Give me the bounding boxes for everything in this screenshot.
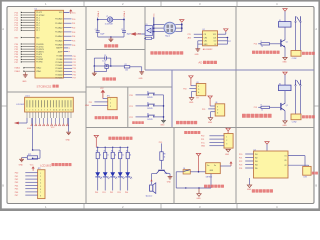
resistor R6 LED limiter: [119, 147, 124, 159]
svg-text:IN3: IN3: [255, 161, 258, 163]
partition line between humidity and key blocks: [127, 87, 129, 128]
svg-text:XTAL2: XTAL2: [123, 10, 126, 17]
svg-text:P20: P20: [239, 154, 242, 156]
label key block caption: [132, 121, 144, 124]
svg-text:P2.0/A8: P2.0/A8: [56, 55, 62, 58]
connector CON4 motor: [303, 166, 311, 178]
svg-text:Y1: Y1: [106, 16, 108, 18]
svg-text:4148: 4148: [27, 128, 31, 130]
svg-text:P03: P03: [117, 192, 120, 194]
svg-text:SW-PB: SW-PB: [147, 108, 152, 110]
label ADC0832 part: [203, 48, 213, 51]
power pin arrow under LCD pin 13: [66, 118, 68, 126]
ground symbol ADC: [195, 49, 201, 56]
svg-text:O1: O1: [284, 155, 286, 157]
wire LCD pin 11 stub: [55, 112, 57, 118]
ground symbol module1: [189, 98, 194, 104]
svg-text:LCD1602: LCD1602: [40, 163, 52, 167]
svg-text:CON2: CON2: [292, 58, 297, 60]
svg-text:A: A: [2, 27, 4, 31]
svg-text:GND: GND: [282, 62, 287, 64]
wire MCU pin P1.0: [15, 12, 35, 15]
power symbol VCC relay 2: [283, 72, 287, 85]
svg-text:P01: P01: [72, 23, 75, 25]
wire LCD pin 12 stub: [58, 112, 60, 118]
svg-text:P0.2/AD2: P0.2/AD2: [55, 26, 62, 29]
svg-text:GND: GND: [19, 165, 24, 167]
svg-text:1k: 1k: [164, 157, 166, 159]
power symbol VCC for LCD backlight: [30, 165, 35, 171]
wire download header pin 4: [201, 146, 224, 148]
capacitor C2: [121, 29, 131, 35]
partition line vertical right of crystal block: [144, 7, 146, 71]
wire JP2 pin 1: [15, 173, 38, 175]
svg-text:K1: K1: [279, 20, 281, 22]
switch S4 power: [183, 168, 190, 174]
svg-text:16: 16: [71, 110, 73, 112]
svg-text:P0.0/AD0: P0.0/AD0: [55, 18, 62, 21]
svg-text:15: 15: [68, 110, 70, 112]
svg-text:13: 13: [62, 110, 64, 112]
wire module1 out pin: [183, 89, 196, 91]
svg-text:P01: P01: [15, 176, 18, 178]
svg-text:P37: P37: [15, 62, 18, 64]
wire LCD pin 5 stub: [38, 112, 40, 118]
label crystal block caption: [104, 44, 118, 47]
wire ADC CH1 pin: [198, 40, 203, 42]
svg-text:P0.1/AD1: P0.1/AD1: [55, 22, 62, 25]
svg-text:P31: P31: [201, 139, 204, 141]
svg-text:P05: P05: [15, 189, 18, 191]
svg-text:P35: P35: [202, 109, 205, 111]
power pin arrow under LCD pin 4: [31, 118, 33, 126]
svg-text:EA/VPP: EA/VPP: [56, 47, 63, 50]
connector JP2 LCD data header: [38, 170, 45, 199]
svg-text:A: A: [315, 27, 317, 31]
svg-text:P06: P06: [15, 192, 18, 194]
wire motor chip input 4: [239, 164, 254, 166]
relay K1 coil: [279, 20, 292, 27]
wire module2 vcc pin: [210, 105, 215, 107]
svg-text:P23: P23: [73, 65, 76, 67]
svg-text:S3: S3: [147, 113, 149, 115]
ground symbol motor block: [247, 185, 252, 191]
wire MCU pin P1.7: [15, 30, 35, 33]
wire MCU pin P0.4: [64, 36, 76, 38]
wire buzzer drive net: [159, 142, 162, 152]
svg-text:P27: P27: [73, 78, 76, 80]
ground symbol reset left: [92, 72, 97, 76]
inner border frame: [7, 7, 314, 204]
resistor R4 LED limiter: [104, 147, 109, 159]
label STC89C52 chip caption: [37, 85, 59, 89]
ground symbol relay 2: [282, 121, 287, 127]
partition line right of alarm block: [173, 128, 175, 204]
ground symbol LCD right: [66, 132, 71, 141]
label alarm block caption: [108, 137, 132, 140]
relay contacts: [295, 80, 301, 86]
svg-text:3: 3: [110, 106, 111, 108]
wire ADC GND pin to ground: [198, 41, 203, 49]
partition line under reset block: [86, 86, 172, 88]
svg-text:LCD1602: LCD1602: [16, 104, 24, 106]
svg-text:AD: AD: [198, 61, 202, 65]
designator JP2: [38, 168, 41, 170]
gas sensor MQ-2: [164, 22, 176, 37]
svg-text:P17: P17: [15, 30, 18, 32]
svg-text:Speaker: Speaker: [146, 195, 153, 197]
wire LCD pin 9 stub: [49, 112, 51, 118]
wire MCU pin P3.4: [15, 53, 35, 56]
svg-text:1k: 1k: [261, 46, 263, 48]
svg-text:B: B: [2, 184, 4, 188]
label LCD1602 part name: [16, 104, 24, 106]
wire MCU pin P2.6: [64, 74, 76, 76]
wire JP2 pin 5: [15, 185, 38, 187]
svg-text:CON2: CON2: [292, 122, 297, 124]
wire MCU VCC pin: [64, 9, 77, 14]
wire resistor to transistor base: [161, 160, 163, 169]
svg-text:C2: C2: [121, 29, 123, 31]
label reset block caption: [102, 77, 116, 80]
wire MCU pin P0.1: [64, 23, 76, 25]
wire JP2 pin 8: [15, 195, 38, 197]
svg-text:XTAL1: XTAL1: [97, 10, 100, 17]
wire motor chip input 2: [239, 157, 254, 159]
wire ADC DI pin: [218, 38, 228, 45]
wire LCD pin 14 stub: [64, 112, 66, 118]
power pin arrow under LCD pin 9: [51, 118, 53, 126]
svg-text:11.0592M: 11.0592M: [105, 24, 113, 26]
wire relay coil to transistor collector: [284, 91, 286, 104]
wire LCD pin 6 stub: [41, 112, 43, 118]
wire MCU pin XTAL2: [14, 67, 35, 70]
designator JP1: [107, 96, 110, 98]
wire contacts to connector: [296, 86, 301, 114]
wire contacts to connector: [296, 23, 301, 51]
resistor R1: [104, 63, 108, 71]
wire MCU pin P0.0: [64, 19, 76, 21]
resistor R base drive relay 1: [254, 41, 281, 48]
designator LCD1: [25, 96, 30, 98]
wire transistor to speaker: [150, 174, 156, 185]
power pin arrow under LCD pin 5: [35, 118, 37, 126]
power symbol VCC relay 1: [283, 9, 287, 22]
wire MCU pin P3.3: [15, 51, 35, 54]
wire MCU pin P1.5: [15, 24, 35, 27]
wire crystal ground rail: [98, 32, 124, 38]
connector CON2 output: [291, 114, 301, 124]
connector CON2 output: [291, 51, 301, 61]
net label P36 with arrow to comparator: [130, 32, 141, 36]
svg-text:VS: VS: [284, 160, 286, 162]
svg-text:GND: GND: [225, 154, 230, 156]
wire MCU pin P3.5: [15, 56, 35, 59]
ground symbol reset right: [139, 72, 145, 80]
wire loop for potentiometer: [32, 149, 40, 159]
svg-text:GND: GND: [160, 125, 165, 127]
wire MCU pin P0.5: [64, 40, 76, 42]
wire LCD pin 3 stub: [32, 112, 34, 118]
svg-text:VCC: VCC: [72, 13, 77, 15]
wire JP2 pin 7: [15, 192, 38, 194]
ADC0832 chip body: [203, 31, 218, 46]
wire MCU pin P1.4: [15, 22, 35, 25]
svg-text:GND: GND: [282, 125, 287, 127]
svg-text:P04: P04: [15, 185, 18, 187]
svg-text:1k: 1k: [122, 155, 124, 157]
label humidity block caption: [95, 116, 118, 119]
svg-text:P24: P24: [239, 168, 242, 170]
relay contacts: [295, 16, 301, 22]
wire motor chip output 1: [288, 156, 305, 167]
wire ADC CLK pin: [218, 37, 229, 39]
svg-text:P23: P23: [239, 164, 242, 166]
ground symbol buzzer: [167, 177, 173, 184]
svg-text:XTAL2: XTAL2: [36, 67, 41, 70]
svg-text:O2: O2: [284, 165, 286, 167]
wire motor chip input 5: [239, 168, 254, 170]
power pin arrow under LCD pin 6: [39, 118, 41, 126]
svg-text:2: 2: [110, 103, 111, 105]
svg-text:GND: GND: [201, 146, 206, 148]
svg-text:P22: P22: [239, 161, 242, 163]
svg-text:P03: P03: [15, 182, 18, 184]
wire MCU pin P3.7: [15, 61, 35, 64]
wire LED D2 to net label: [102, 177, 105, 194]
svg-text:P01: P01: [102, 192, 105, 194]
svg-text:P34: P34: [183, 89, 186, 91]
wire JP2 pin 3: [15, 179, 38, 181]
svg-text:C1: C1: [95, 29, 97, 31]
wire ADC CH0 pin: [188, 37, 203, 40]
wire MCU pin RST: [15, 37, 35, 40]
svg-text:GND: GND: [195, 54, 200, 56]
svg-text:Vin: Vin: [207, 165, 209, 167]
svg-text:U5: U5: [146, 24, 148, 26]
wire buttons common to ground: [163, 95, 165, 120]
svg-text:V: V: [217, 106, 218, 108]
svg-text:P1.7: P1.7: [36, 30, 40, 32]
partition line under MCU block: [7, 91, 86, 93]
wire LCD pin 15 stub: [67, 112, 69, 118]
net label XTAL2 vertical: [123, 10, 126, 17]
svg-text:S1: S1: [147, 91, 149, 93]
label net under LCD pins left: [27, 128, 31, 130]
svg-text:1k: 1k: [115, 155, 117, 157]
svg-text:IN5: IN5: [255, 168, 258, 170]
svg-text:XTAL1: XTAL1: [36, 70, 41, 73]
svg-text:P06: P06: [72, 45, 75, 47]
wire LCD pin 7 stub: [44, 112, 46, 118]
designator U2: [203, 29, 205, 31]
svg-text:R4: R4: [104, 151, 106, 153]
wire switch to regulator: [190, 171, 205, 173]
wire module2 gnd pin: [211, 112, 216, 118]
svg-text:C3: C3: [104, 55, 106, 57]
wire crystal right branch: [113, 18, 125, 31]
svg-text:Q1: Q1: [286, 41, 288, 43]
svg-text:11: 11: [56, 110, 58, 112]
svg-text:P02: P02: [110, 192, 113, 194]
svg-text:P30: P30: [201, 136, 204, 138]
svg-text:P14: P14: [254, 44, 257, 46]
svg-text:P00: P00: [72, 19, 75, 21]
power symbol VCC alarm rail: [94, 135, 98, 147]
power symbol VCC motor chip: [265, 142, 269, 151]
wire MCU pin P2.7: [64, 78, 76, 80]
wire MCU pin P2.3: [64, 65, 76, 67]
wire LCD data pin 15 down to ground: [68, 118, 70, 132]
svg-text:RST: RST: [36, 37, 39, 39]
svg-text:P21: P21: [73, 59, 76, 61]
net label XTAL1 vertical: [97, 10, 100, 17]
label program download port caption: [184, 131, 200, 134]
svg-text:CS: CS: [204, 34, 206, 36]
power symbol VCC humidity: [100, 88, 105, 99]
wire MCU pin P3.0: [15, 43, 35, 46]
op-amp U5 comparator: [141, 24, 154, 36]
svg-text:P02: P02: [72, 28, 75, 30]
svg-text:GND: GND: [196, 198, 201, 200]
svg-text:7: 7: [44, 110, 45, 112]
net label VCC sensor rail: [154, 13, 156, 17]
LED D2: [103, 159, 110, 179]
svg-text:12: 12: [59, 110, 61, 112]
LED D5: [125, 159, 132, 179]
svg-text:P2.3/A11: P2.3/A11: [56, 64, 63, 67]
wire regulator gnd pin to rail: [210, 174, 212, 188]
wire MCU pin P3.2: [15, 48, 35, 51]
svg-text:P21: P21: [129, 106, 132, 108]
connector JP3 download header: [224, 134, 233, 149]
power port arrow VCC at LCD left: [14, 118, 27, 124]
svg-text:P07: P07: [15, 195, 18, 197]
wire transistor emitter to ground: [284, 111, 286, 121]
svg-text:P0.4/AD4: P0.4/AD4: [55, 35, 62, 38]
svg-text:P04: P04: [125, 192, 128, 194]
svg-text:RP1: RP1: [28, 154, 31, 156]
ground symbol download header: [225, 149, 230, 156]
label motor block caption: [252, 189, 273, 192]
svg-text:R8: R8: [164, 154, 166, 156]
svg-text:R7: R7: [126, 151, 128, 153]
ground symbol crystal: [109, 37, 114, 42]
svg-text:P03: P03: [72, 32, 75, 34]
potentiometer RP1: [27, 154, 37, 159]
svg-text:P02: P02: [15, 179, 18, 181]
svg-text:P22: P22: [73, 62, 76, 64]
svg-text:GND: GND: [167, 182, 172, 184]
wire transistor emitter to ground: [284, 47, 286, 57]
svg-text:IN2: IN2: [255, 158, 258, 160]
svg-text:S4: S4: [183, 168, 185, 170]
power pin arrow under LCD pin 8: [47, 118, 49, 126]
wire MCU pin P1.1: [15, 14, 35, 17]
wire MCU pin XTAL1: [14, 70, 35, 73]
wire crystal left branch: [97, 18, 107, 31]
svg-text:R6: R6: [119, 151, 121, 153]
resistor R2 10k: [124, 64, 130, 72]
partition line under crystal block: [86, 49, 145, 51]
transistor Q1: [281, 39, 288, 47]
svg-text:IN1: IN1: [255, 154, 258, 156]
wire LCD pin 2 stub: [29, 112, 31, 118]
designator U4: [254, 149, 256, 151]
transistor Q3 9012: [156, 170, 168, 175]
wire LED D4 to net label: [117, 177, 120, 194]
power pin arrow under LCD pin 11: [58, 118, 60, 126]
power symbol VCC sensor right: [180, 20, 184, 23]
wire transistor to ground: [167, 174, 170, 177]
svg-text:GND: GND: [22, 81, 27, 83]
svg-text:P22: P22: [129, 117, 132, 119]
wire rail to sensor pins: [154, 25, 165, 32]
resistor R base drive relay 2: [254, 105, 281, 112]
wire LCD pin 16 stub: [70, 112, 72, 118]
MCU U1 STC89C52 chip body: [35, 10, 64, 79]
svg-text:P00: P00: [95, 192, 98, 194]
svg-text:B: B: [315, 184, 317, 188]
svg-text:Vo: Vo: [214, 165, 216, 167]
power symbol VCC module2: [208, 96, 212, 106]
wire motor chip input 3: [239, 161, 254, 163]
svg-text:P20: P20: [129, 95, 132, 97]
partition line vertical left column: [85, 7, 87, 204]
power pin arrow under LCD pin 12: [62, 118, 64, 126]
partition line above bottom row: [86, 127, 314, 129]
wire MCU pin P2.0: [64, 56, 76, 58]
wire MCU pin P0.6: [64, 45, 76, 47]
svg-text:IN4: IN4: [255, 165, 258, 167]
svg-text:Q2: Q2: [286, 105, 288, 107]
wire JP1 pin3 gnd: [85, 105, 108, 107]
label module1 type: [197, 97, 199, 99]
svg-text:P2.6/A14: P2.6/A14: [56, 73, 63, 76]
LED D3: [110, 159, 117, 179]
resistor R8 buzzer base: [160, 152, 166, 161]
wire JP1 pin2 data: [89, 102, 108, 104]
wire reset to right ground: [130, 67, 142, 72]
partition line vertical right of key block: [171, 70, 173, 128]
svg-text:P2.7/A15: P2.7/A15: [56, 76, 63, 79]
svg-text:K2: K2: [279, 83, 281, 85]
svg-text:V: V: [198, 86, 199, 88]
wire MCU pin P3.1: [15, 46, 35, 49]
label connector output caption: [302, 115, 315, 118]
regulator U7 7805: [206, 163, 221, 179]
wire MCU pin P2.4: [64, 68, 76, 70]
svg-text:STC89C52: STC89C52: [37, 85, 52, 89]
speaker LS1: [146, 183, 156, 198]
svg-text:P2.2/A10: P2.2/A10: [56, 61, 63, 64]
svg-text:P2.4/A12: P2.4/A12: [56, 67, 63, 70]
wire sensor left rail: [153, 17, 155, 38]
wire reset mid rail RST: [94, 65, 125, 67]
partition line under sensor and ADC row: [145, 69, 314, 71]
svg-text:P17: P17: [228, 41, 231, 43]
label relay block caption: [252, 51, 280, 54]
relay K2 coil: [279, 83, 292, 90]
wire MCU pin ALE no-connect: [64, 51, 71, 54]
svg-text:AD0: AD0: [188, 37, 192, 40]
svg-text:XTAL2: XTAL2: [14, 67, 20, 70]
wire JP2 pin 6: [15, 189, 38, 191]
wire LCD pin 8 stub: [47, 112, 49, 118]
svg-text:14: 14: [65, 110, 67, 112]
svg-text:GND: GND: [208, 122, 213, 124]
svg-text:P13: P13: [254, 107, 257, 109]
